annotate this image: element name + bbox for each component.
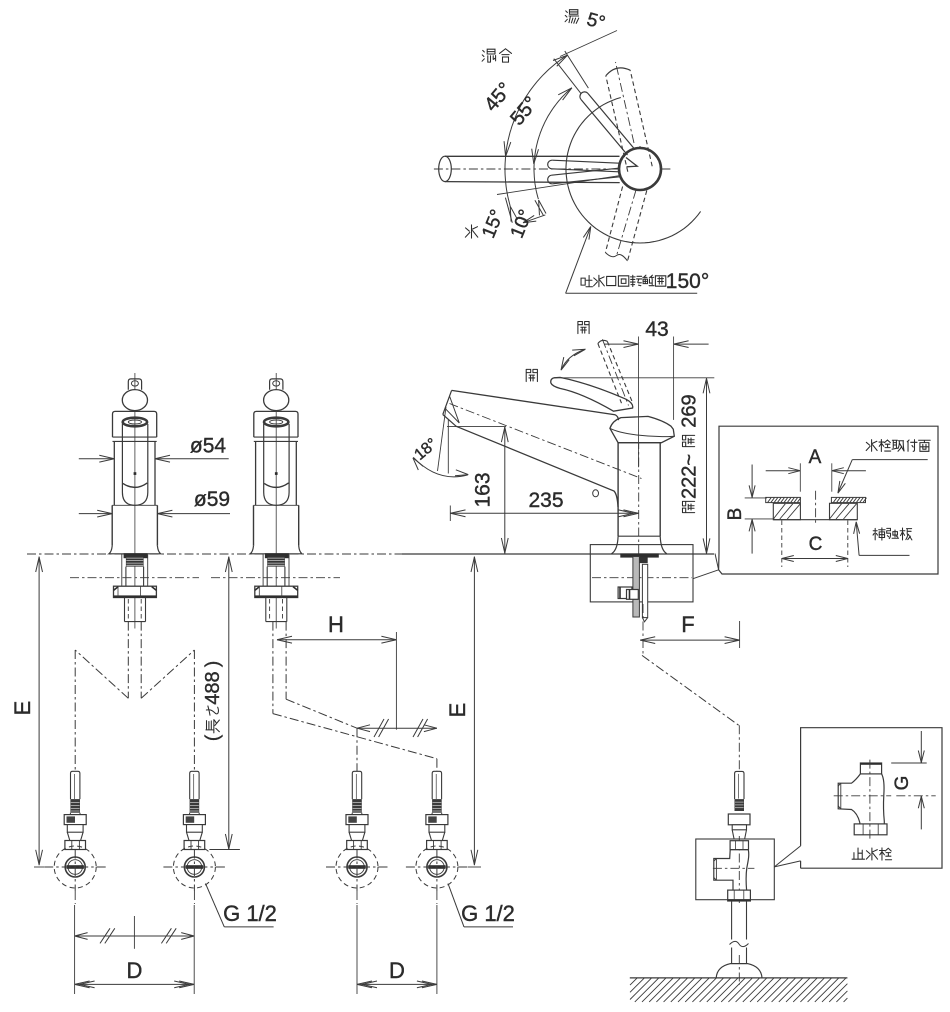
svg-text:E: E bbox=[10, 701, 35, 716]
svg-text:D: D bbox=[127, 958, 143, 983]
svg-text:(: ( bbox=[203, 734, 224, 741]
svg-text:222~: 222~ bbox=[679, 454, 701, 499]
svg-text:43: 43 bbox=[645, 318, 668, 341]
svg-text:A: A bbox=[809, 447, 822, 468]
svg-text:ø54: ø54 bbox=[190, 435, 227, 458]
svg-text:150°: 150° bbox=[666, 270, 709, 293]
svg-text:ø59: ø59 bbox=[194, 488, 230, 511]
svg-text:235: 235 bbox=[528, 489, 563, 512]
svg-text:F: F bbox=[681, 612, 694, 637]
svg-text:G: G bbox=[892, 776, 913, 791]
svg-text:C: C bbox=[809, 534, 823, 555]
svg-text:H: H bbox=[328, 612, 344, 637]
svg-text:): ) bbox=[203, 661, 224, 667]
svg-text:G 1/2: G 1/2 bbox=[223, 901, 277, 926]
svg-text:E: E bbox=[445, 703, 470, 718]
svg-text:163: 163 bbox=[472, 472, 495, 507]
svg-text:B: B bbox=[725, 508, 746, 521]
svg-text:488: 488 bbox=[202, 671, 224, 704]
svg-text:G 1/2: G 1/2 bbox=[461, 901, 515, 926]
svg-text:D: D bbox=[389, 958, 405, 983]
svg-text:269: 269 bbox=[679, 394, 701, 427]
